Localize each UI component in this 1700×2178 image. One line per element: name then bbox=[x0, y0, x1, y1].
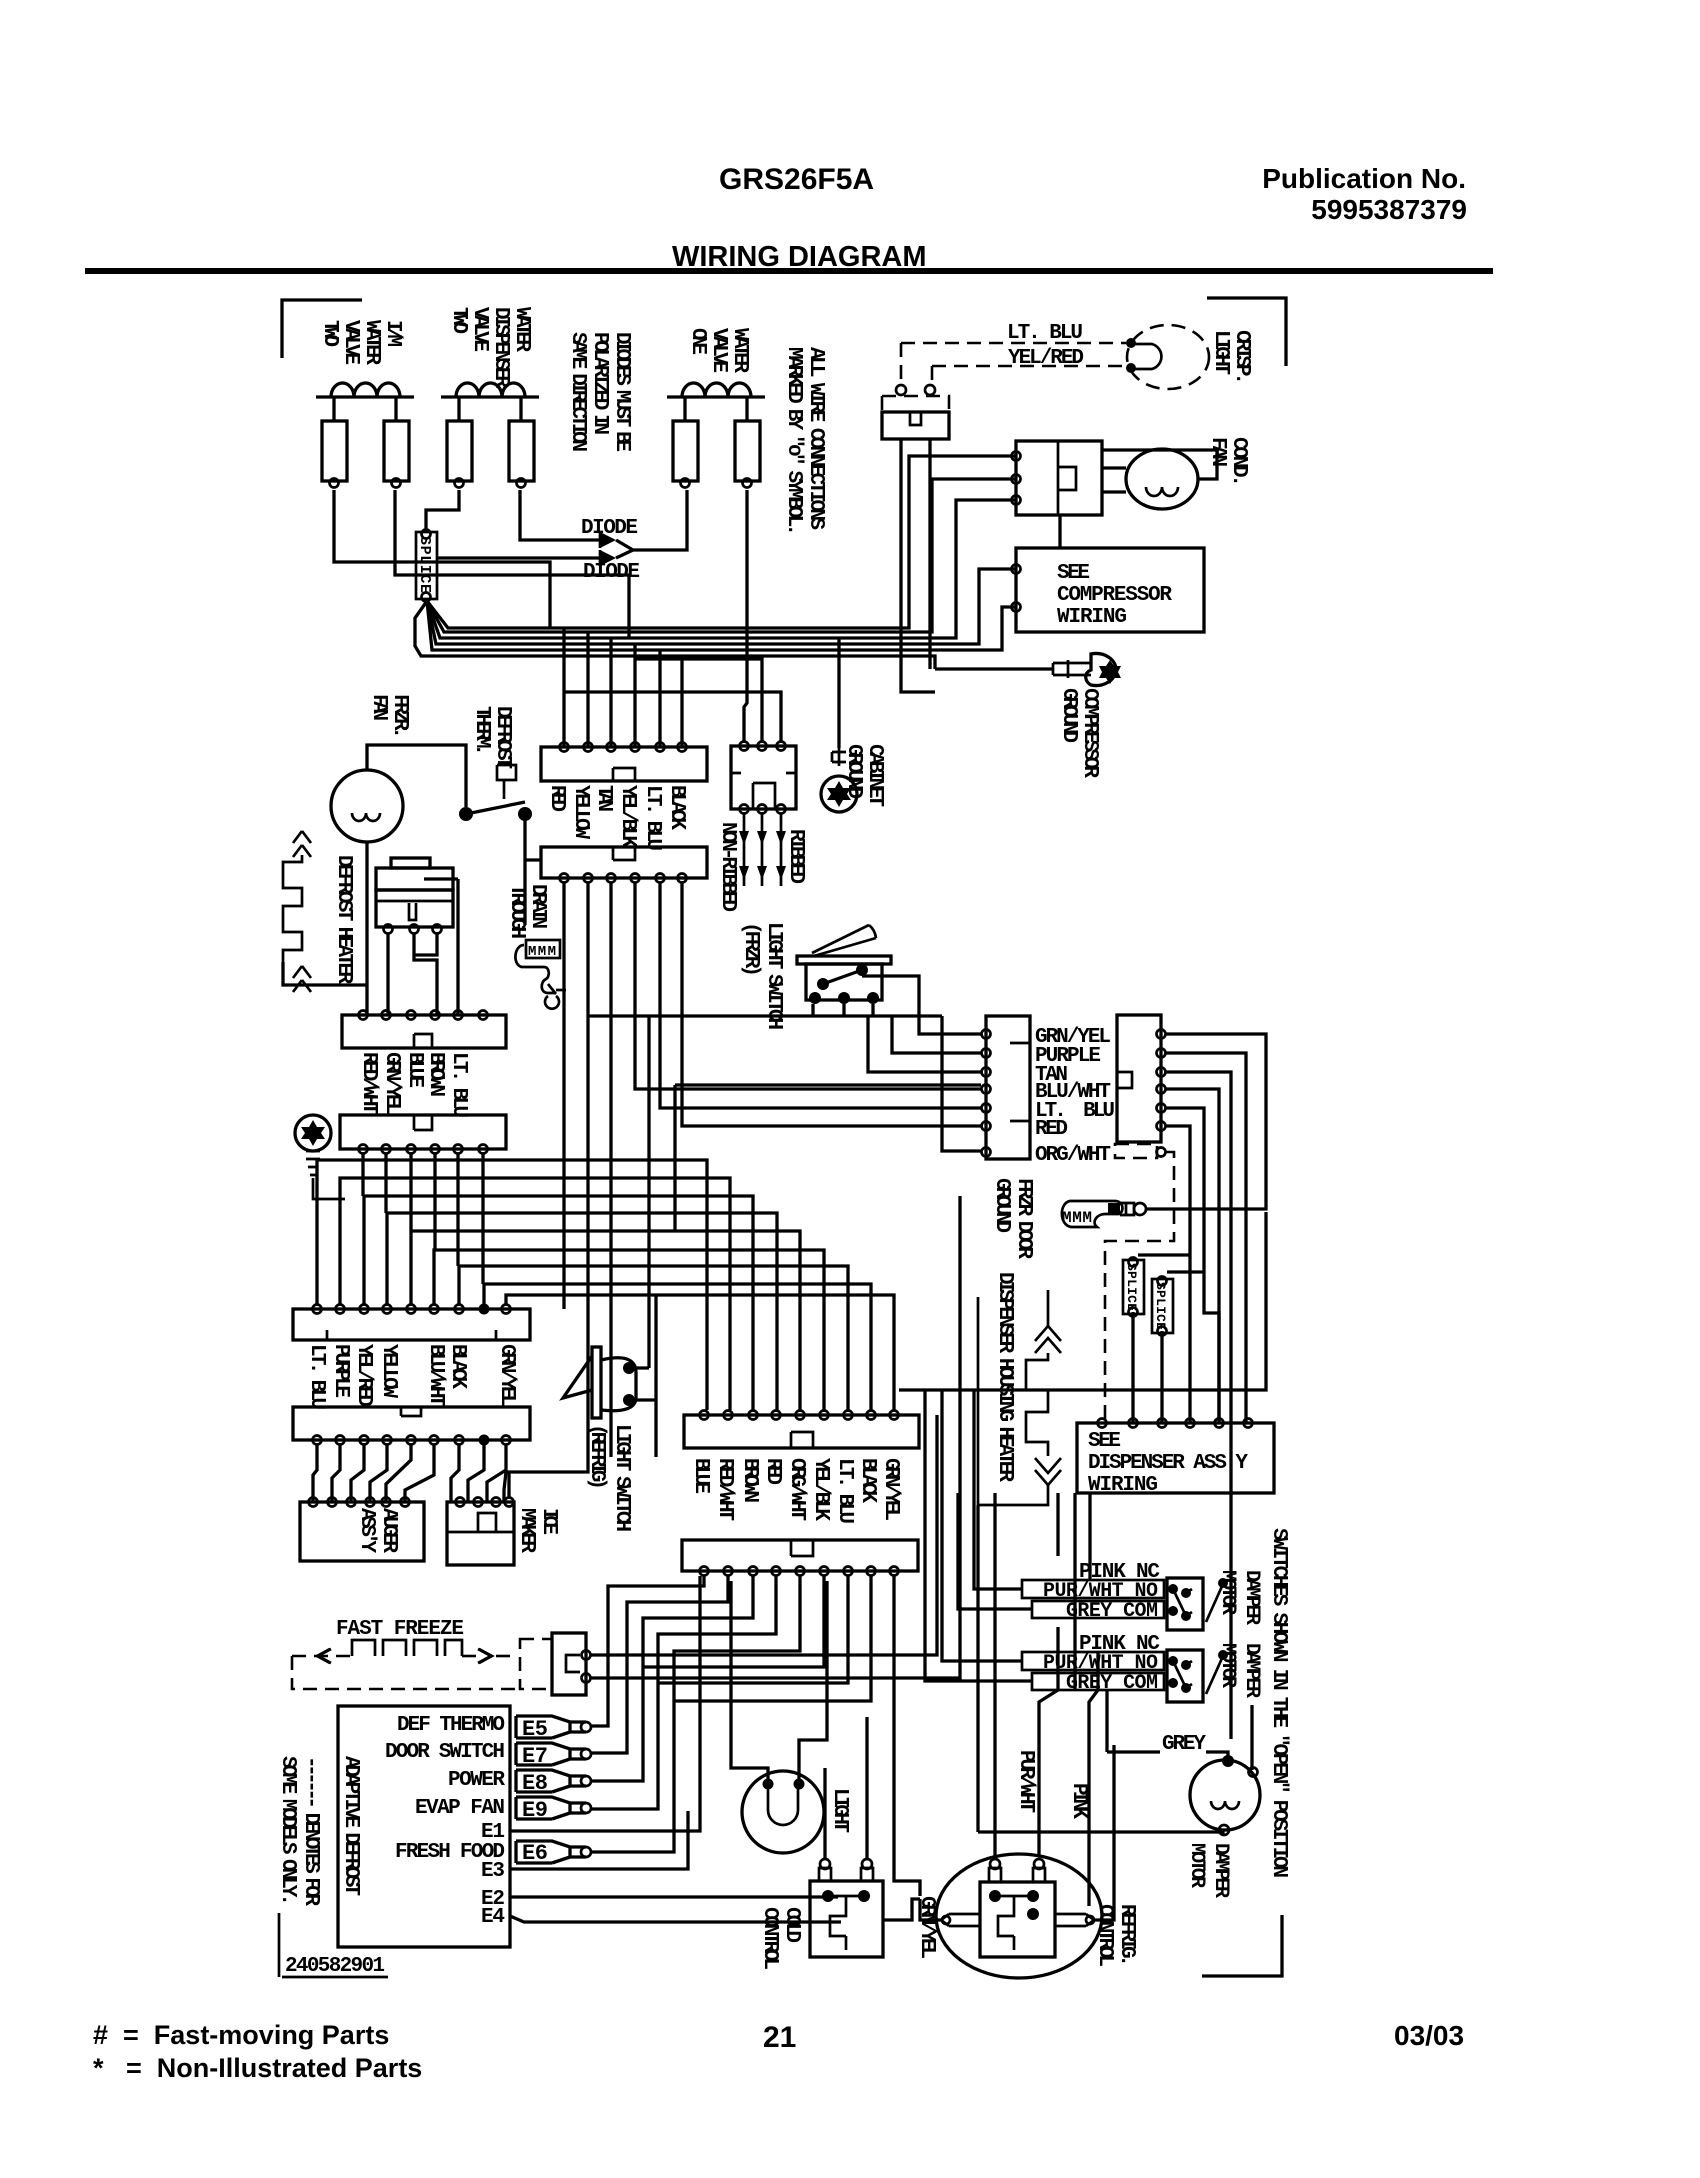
splice S2 bbox=[1123, 1258, 1144, 1317]
svg-text:03/03: 03/03 bbox=[1394, 2020, 1464, 2051]
spade terminal E5 bbox=[516, 1716, 591, 1742]
svg-text:SEE: SEE bbox=[1088, 1430, 1121, 1453]
wire thermostat right to block bbox=[525, 814, 540, 925]
wires bus to block1 bbox=[564, 628, 682, 747]
wire purple down bbox=[1166, 1053, 1246, 1423]
wire valve one right down bbox=[744, 490, 747, 741]
connector C bbox=[684, 1411, 919, 1449]
svg-text:LIGHT: LIGHT bbox=[828, 1788, 851, 1833]
cond fan motor bbox=[1126, 449, 1198, 509]
svg-text:BROWN: BROWN bbox=[424, 1052, 447, 1097]
auger assy box bbox=[300, 1498, 424, 1562]
crisper connector bbox=[882, 385, 949, 439]
svg-text:21: 21 bbox=[763, 2021, 796, 2054]
svg-text:5995387379: 5995387379 bbox=[1311, 194, 1467, 225]
adaptive defrost board bbox=[338, 1706, 510, 1947]
connector block E1 bbox=[342, 1011, 506, 1049]
svg-text:LT. BLU: LT. BLU bbox=[833, 1458, 856, 1524]
svg-text:FAST FREEZE: FAST FREEZE bbox=[336, 1618, 464, 1641]
svg-text:E5: E5 bbox=[522, 1717, 548, 1742]
drain trough symbol bbox=[515, 940, 566, 1009]
wires light bbox=[731, 1581, 827, 1779]
svg-text:RED: RED bbox=[1035, 1118, 1068, 1141]
damper switch assembly 1 bbox=[1022, 1561, 1228, 1630]
svg-text:RED/WHT: RED/WHT bbox=[357, 1052, 380, 1115]
svg-text:GREY COM: GREY COM bbox=[1066, 1600, 1158, 1623]
svg-text:ORG/WHT: ORG/WHT bbox=[785, 1458, 808, 1521]
main bus wires bbox=[415, 456, 1016, 669]
wire fan top to thermostat bbox=[367, 745, 466, 807]
wires molex up bbox=[564, 659, 781, 741]
defrost heater element bbox=[376, 858, 453, 934]
title rule bbox=[85, 268, 1493, 274]
wire relay to cond fan bbox=[1102, 450, 1217, 492]
connector D bbox=[682, 1540, 918, 1576]
svg-text:BLACK: BLACK bbox=[665, 785, 688, 830]
frame bracket top-right bbox=[1207, 298, 1286, 366]
svg-text:COMPRESSOR: COMPRESSOR bbox=[1057, 584, 1172, 607]
svg-text:PURPLE: PURPLE bbox=[329, 1344, 352, 1398]
wire splice area to diode2 bbox=[437, 556, 600, 559]
fast freeze dashed resistor bbox=[292, 1640, 520, 1689]
svg-text:TAN: TAN bbox=[592, 785, 615, 812]
wire purple to dispenser bbox=[1244, 1421, 1247, 1424]
cold control box bbox=[810, 1859, 883, 1957]
cabinet ground lug bbox=[821, 748, 857, 812]
svg-text:BLU/WHT: BLU/WHT bbox=[424, 1344, 447, 1407]
frzr door ground lug bbox=[1062, 1201, 1146, 1227]
wire tan down bbox=[1166, 1072, 1231, 1739]
connector block2 bbox=[541, 847, 707, 883]
wires heater terminals down bbox=[388, 879, 458, 1015]
spade terminal E8 bbox=[516, 1770, 591, 1796]
wire valve2 left to splice top bbox=[426, 490, 459, 529]
refrig control bbox=[936, 1854, 1102, 1978]
svg-text:DIODE: DIODE bbox=[583, 561, 640, 584]
svg-text:DISPENSER HOUSING HEATER: DISPENSER HOUSING HEATER bbox=[993, 1272, 1016, 1482]
wire pur/wht vertical run bbox=[1039, 1627, 1058, 1855]
defrost therm symbol bbox=[497, 765, 516, 799]
svg-text:WIRING: WIRING bbox=[1088, 1474, 1158, 1497]
svg-text:240582901: 240582901 bbox=[285, 1955, 385, 1978]
see dispenser assy wiring box bbox=[1077, 1419, 1274, 1498]
board part number 240582901 bbox=[279, 1913, 388, 1978]
dispenser housing heater element bbox=[978, 1290, 1061, 1505]
light switch frzr bbox=[797, 925, 891, 1004]
svg-text:NON-RIBBED: NON-RIBBED bbox=[716, 822, 739, 912]
svg-text:WIRING: WIRING bbox=[1057, 606, 1127, 629]
ribbed wire arrows bbox=[739, 814, 786, 886]
door connector right bbox=[1117, 1015, 1166, 1142]
svg-text:YEL/BLK: YEL/BLK bbox=[809, 1458, 832, 1521]
door connector left bbox=[982, 1016, 1031, 1159]
svg-text:PINK: PINK bbox=[1067, 1783, 1090, 1819]
wire grn/yel link bbox=[883, 1899, 941, 1920]
svg-text:LIGHT SWITCH: LIGHT SWITCH bbox=[610, 1424, 633, 1532]
wire pink vertical run bbox=[1089, 1652, 1098, 1906]
staircase wires below connector D bbox=[592, 1576, 920, 1896]
svg-text:POWER: POWER bbox=[448, 1769, 505, 1792]
svg-text:YEL/RED: YEL/RED bbox=[1008, 347, 1084, 370]
svg-text:YELLOW: YELLOW bbox=[569, 785, 592, 839]
solenoid I/M water valve two bbox=[316, 383, 414, 488]
svg-text:SOME MODELS ONLY.: SOME MODELS ONLY. bbox=[276, 1756, 299, 1906]
connector block E2 bbox=[340, 1115, 506, 1154]
svg-text:DIODE: DIODE bbox=[581, 517, 638, 540]
connector block1 bbox=[541, 743, 707, 782]
fast freeze connector bbox=[520, 1633, 591, 1695]
svg-text:BROWN: BROWN bbox=[738, 1458, 761, 1503]
svg-text:MMM: MMM bbox=[528, 944, 556, 960]
svg-text:LT. BLU: LT. BLU bbox=[305, 1344, 328, 1410]
spade terminal E7 bbox=[516, 1743, 591, 1769]
svg-text:RED: RED bbox=[545, 785, 568, 812]
svg-text:E3: E3 bbox=[481, 1860, 505, 1883]
wire crisper connector drops bbox=[901, 439, 935, 692]
see compressor wiring box bbox=[1012, 548, 1205, 632]
wires cold control posts up bbox=[825, 1717, 867, 1859]
svg-text:ORG/WHT: ORG/WHT bbox=[1035, 1144, 1111, 1167]
svg-text:LIGHT SWITCH: LIGHT SWITCH bbox=[762, 922, 785, 1030]
svg-text:E6: E6 bbox=[522, 1841, 548, 1866]
svg-text:E7: E7 bbox=[522, 1744, 548, 1769]
spade terminal E6 bbox=[516, 1841, 591, 1866]
wire to cabinet ground bbox=[837, 639, 840, 748]
connector A bbox=[293, 1304, 530, 1341]
wire fan bottom down bbox=[365, 842, 368, 1015]
svg-text:GRN/YEL: GRN/YEL bbox=[380, 1052, 403, 1115]
svg-text:YEL/BLK: YEL/BLK bbox=[616, 785, 639, 848]
freezer light bulb bbox=[295, 1115, 345, 1199]
wires fast freeze connector bbox=[591, 1196, 960, 1678]
diode D1 bbox=[581, 517, 638, 548]
wire valve1 right to bus bbox=[395, 490, 629, 638]
wire defrost heater left bbox=[283, 962, 367, 985]
svg-text:E4: E4 bbox=[481, 1906, 505, 1929]
damper motor 3 bbox=[1190, 1755, 1260, 1835]
svg-text:GREY: GREY bbox=[1162, 1733, 1206, 1756]
splice S1 bbox=[416, 530, 437, 602]
wires light switch refrig bbox=[629, 1295, 656, 1457]
wire lt. blu dashed bbox=[901, 342, 1126, 345]
svg-text:E9: E9 bbox=[522, 1798, 548, 1823]
wire yel/red dashed bbox=[901, 343, 1126, 385]
svg-text:E8: E8 bbox=[522, 1771, 548, 1796]
board direct wires E1 E3 E2 E4 bbox=[510, 1576, 841, 1922]
svg-text:BLACK: BLACK bbox=[446, 1344, 469, 1389]
svg-text:GREY COM: GREY COM bbox=[1066, 1672, 1158, 1695]
svg-text:SPLICE: SPLICE bbox=[1124, 1263, 1139, 1311]
wire refrig control right bbox=[1094, 1745, 1114, 1920]
wires damper boxes left ends bbox=[925, 1390, 1032, 1681]
frzr fan motor bbox=[331, 770, 403, 842]
wire lt.blu door feed bbox=[675, 1085, 981, 1231]
svg-text:RIBBED: RIBBED bbox=[784, 829, 807, 884]
frame bracket bottom-right bbox=[1202, 1915, 1282, 1976]
svg-text:DOOR SWITCH: DOOR SWITCH bbox=[385, 1741, 505, 1764]
diode D2 bbox=[583, 550, 640, 584]
defrost thermostat switch bbox=[459, 802, 532, 821]
svg-text:BLUE: BLUE bbox=[403, 1052, 426, 1088]
svg-text:YELLOW: YELLOW bbox=[377, 1344, 400, 1398]
defrost heater meander bbox=[283, 831, 311, 992]
svg-text:BLUE: BLUE bbox=[689, 1458, 712, 1494]
svg-text:SEE: SEE bbox=[1057, 562, 1090, 585]
svg-text:DISPENSER ASS'Y: DISPENSER ASS'Y bbox=[1088, 1452, 1248, 1475]
wire valve1 left to bus bbox=[334, 490, 550, 628]
wire to compressor ground bbox=[935, 667, 1053, 670]
svg-text:ALL WIRE CONNECTIONSMARKED BY: ALL WIRE CONNECTIONSMARKED BY "o" SYMBOL… bbox=[782, 347, 827, 536]
ice maker box bbox=[447, 1498, 514, 1566]
svg-text:GRN/YEL: GRN/YEL bbox=[495, 1344, 518, 1407]
wire relay to compressor box bbox=[1058, 515, 1061, 548]
wires light switch frzr bbox=[813, 976, 981, 1034]
svg-text:RED/WHT: RED/WHT bbox=[713, 1458, 736, 1521]
light bulb refrig bbox=[742, 1771, 824, 1853]
connector B bbox=[293, 1407, 530, 1446]
svg-text:GRN/YEL: GRN/YEL bbox=[879, 1458, 902, 1521]
wires block2 down bbox=[509, 883, 981, 1497]
org/wht dashed connector bbox=[1105, 1144, 1174, 1423]
wire diode junction to valve one bbox=[616, 490, 687, 558]
wires splices bbox=[1133, 1312, 1162, 1423]
wires into connector C from above bbox=[588, 1016, 1090, 1689]
svg-text:(FRZR): (FRZR) bbox=[739, 922, 762, 977]
splice S3 bbox=[1152, 1277, 1173, 1336]
wires refrig control posts up bbox=[993, 1493, 996, 1859]
wire damper motor bottom bbox=[978, 1505, 1223, 1836]
molex connector 3pin bbox=[731, 742, 796, 814]
svg-text:EVAP FAN: EVAP FAN bbox=[415, 1797, 505, 1820]
svg-text:------ DENOTES FOR: ------ DENOTES FOR bbox=[299, 1756, 322, 1906]
svg-text:MMM: MMM bbox=[1062, 1209, 1092, 1227]
compressor ground lug bbox=[1053, 654, 1121, 686]
svg-text:RED: RED bbox=[761, 1458, 784, 1485]
svg-text:LT. BLU: LT. BLU bbox=[447, 1052, 470, 1118]
svg-text:LT. BLU: LT. BLU bbox=[1007, 322, 1083, 345]
svg-text:* = Non-Illustrated Parts: * = Non-Illustrated Parts bbox=[93, 2053, 422, 2083]
compressor relay box bbox=[1012, 441, 1103, 515]
svg-text:GRS26F5A: GRS26F5A bbox=[719, 163, 874, 196]
svg-text:PUR/WHT: PUR/WHT bbox=[1014, 1750, 1037, 1813]
svg-text:Publication No.: Publication No. bbox=[1262, 163, 1466, 194]
solenoid water dispenser valve two bbox=[441, 383, 539, 488]
staircase wires above connector A bbox=[317, 1154, 894, 1410]
svg-text:YEL/RED: YEL/RED bbox=[352, 1344, 375, 1407]
wire blu/wht down bbox=[1166, 1089, 1219, 1423]
spade terminal E9 bbox=[516, 1797, 591, 1823]
svg-text:CABINETGROUND: CABINETGROUND bbox=[842, 744, 886, 807]
wire red down bbox=[1138, 1126, 1190, 1423]
svg-text:BLACK: BLACK bbox=[856, 1458, 879, 1503]
svg-text:ADAPTIVE DEFROST: ADAPTIVE DEFROST bbox=[339, 1756, 362, 1896]
svg-text:AUGERASS'Y: AUGERASS'Y bbox=[355, 1508, 400, 1553]
svg-text:DEF THERMO: DEF THERMO bbox=[397, 1714, 505, 1737]
wire lt blu down bbox=[1166, 1108, 1219, 1423]
svg-text:SPLICE: SPLICE bbox=[416, 536, 433, 593]
solenoid water valve one bbox=[667, 383, 765, 488]
svg-text:DEFROST HEATER: DEFROST HEATER bbox=[332, 855, 355, 984]
light switch refrig bbox=[563, 1347, 636, 1418]
svg-text:LT. BLU: LT. BLU bbox=[641, 785, 664, 851]
crisp light lamp bbox=[1126, 325, 1209, 389]
svg-text:DIODES MUST BEPOLARIZED INSAME: DIODES MUST BEPOLARIZED INSAME DIRECTION bbox=[566, 332, 633, 452]
wire grey to damper motor bbox=[1107, 1690, 1252, 1770]
svg-text:# = Fast-moving Parts: # = Fast-moving Parts bbox=[93, 2020, 389, 2050]
staircase wires below connector B to auger and ice maker bbox=[313, 1445, 506, 1502]
svg-text:SWITCHES SHOWN IN THE "OPEN" P: SWITCHES SHOWN IN THE "OPEN" POSITION bbox=[1267, 1528, 1290, 1878]
frame bracket top-left bbox=[282, 300, 362, 358]
wire frzr door ground to grn/yel bbox=[899, 1034, 1266, 1390]
damper switch assembly 2 bbox=[1022, 1633, 1228, 1702]
svg-text:SPLICE: SPLICE bbox=[1153, 1282, 1168, 1330]
wire valve2 right to diode1 bbox=[520, 490, 600, 540]
svg-text:(REFRIG): (REFRIG) bbox=[585, 1424, 608, 1490]
